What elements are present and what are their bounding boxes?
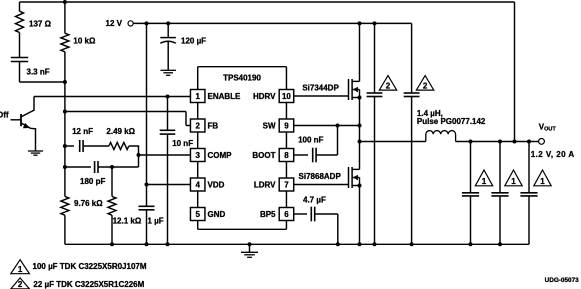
- svg-text:12 nF: 12 nF: [72, 127, 93, 136]
- svg-text:UDG-05073: UDG-05073: [545, 277, 580, 284]
- svg-text:1: 1: [482, 177, 487, 186]
- svg-text:3: 3: [195, 151, 200, 160]
- svg-text:2: 2: [386, 81, 391, 90]
- svg-text:1: 1: [540, 177, 545, 186]
- svg-text:Si7344DP: Si7344DP: [302, 83, 339, 92]
- svg-text:9.76 kΩ: 9.76 kΩ: [74, 199, 103, 208]
- svg-text:BOOT: BOOT: [252, 151, 275, 160]
- svg-text:100 µF TDK C3225X5R0J107M: 100 µF TDK C3225X5R0J107M: [33, 262, 147, 271]
- svg-text:1 µF: 1 µF: [148, 217, 164, 226]
- svg-text:10: 10: [282, 92, 291, 101]
- svg-text:100 nF: 100 nF: [298, 135, 323, 144]
- svg-text:137 Ω: 137 Ω: [29, 19, 52, 28]
- svg-text:8: 8: [284, 151, 289, 160]
- svg-text:12.1 kΩ: 12.1 kΩ: [113, 217, 142, 226]
- svg-text:FB: FB: [208, 122, 219, 131]
- svg-text:BP5: BP5: [260, 210, 276, 219]
- svg-text:Si7868ADP: Si7868ADP: [299, 172, 342, 181]
- svg-text:7: 7: [284, 181, 289, 190]
- svg-text:120 µF: 120 µF: [181, 36, 206, 45]
- svg-text:3.3 nF: 3.3 nF: [27, 67, 50, 76]
- svg-text:6: 6: [284, 210, 289, 219]
- svg-text:1: 1: [511, 177, 516, 186]
- svg-text:1: 1: [18, 265, 23, 274]
- svg-text:2.49 kΩ: 2.49 kΩ: [106, 127, 135, 136]
- svg-text:1.2 V, 20 A: 1.2 V, 20 A: [531, 150, 575, 159]
- svg-text:22 µF TDK C3225X5R1C226M: 22 µF TDK C3225X5R1C226M: [33, 280, 144, 289]
- svg-text:5: 5: [195, 210, 200, 219]
- svg-text:4: 4: [195, 181, 200, 190]
- svg-text:12 V: 12 V: [106, 19, 123, 28]
- svg-text:9: 9: [284, 122, 289, 131]
- svg-text:2: 2: [18, 280, 23, 289]
- svg-text:GND: GND: [208, 210, 226, 219]
- svg-text:10 kΩ: 10 kΩ: [73, 36, 96, 45]
- svg-text:VDD: VDD: [208, 181, 225, 190]
- svg-text:10 nF: 10 nF: [172, 139, 193, 148]
- svg-text:Pulse PG0077.142: Pulse PG0077.142: [417, 117, 486, 126]
- svg-text:1: 1: [195, 92, 200, 101]
- svg-text:4.7 µF: 4.7 µF: [303, 195, 326, 204]
- svg-text:HDRV: HDRV: [253, 92, 276, 101]
- svg-text:COMP: COMP: [208, 151, 233, 160]
- svg-text:Off: Off: [0, 111, 9, 120]
- svg-text:2: 2: [423, 81, 428, 90]
- svg-text:LDRV: LDRV: [254, 181, 276, 190]
- svg-text:TPS40190: TPS40190: [223, 73, 261, 82]
- svg-text:ENABLE: ENABLE: [208, 92, 242, 101]
- svg-text:2: 2: [195, 122, 200, 131]
- svg-text:180 pF: 180 pF: [80, 177, 105, 186]
- svg-text:SW: SW: [263, 122, 276, 131]
